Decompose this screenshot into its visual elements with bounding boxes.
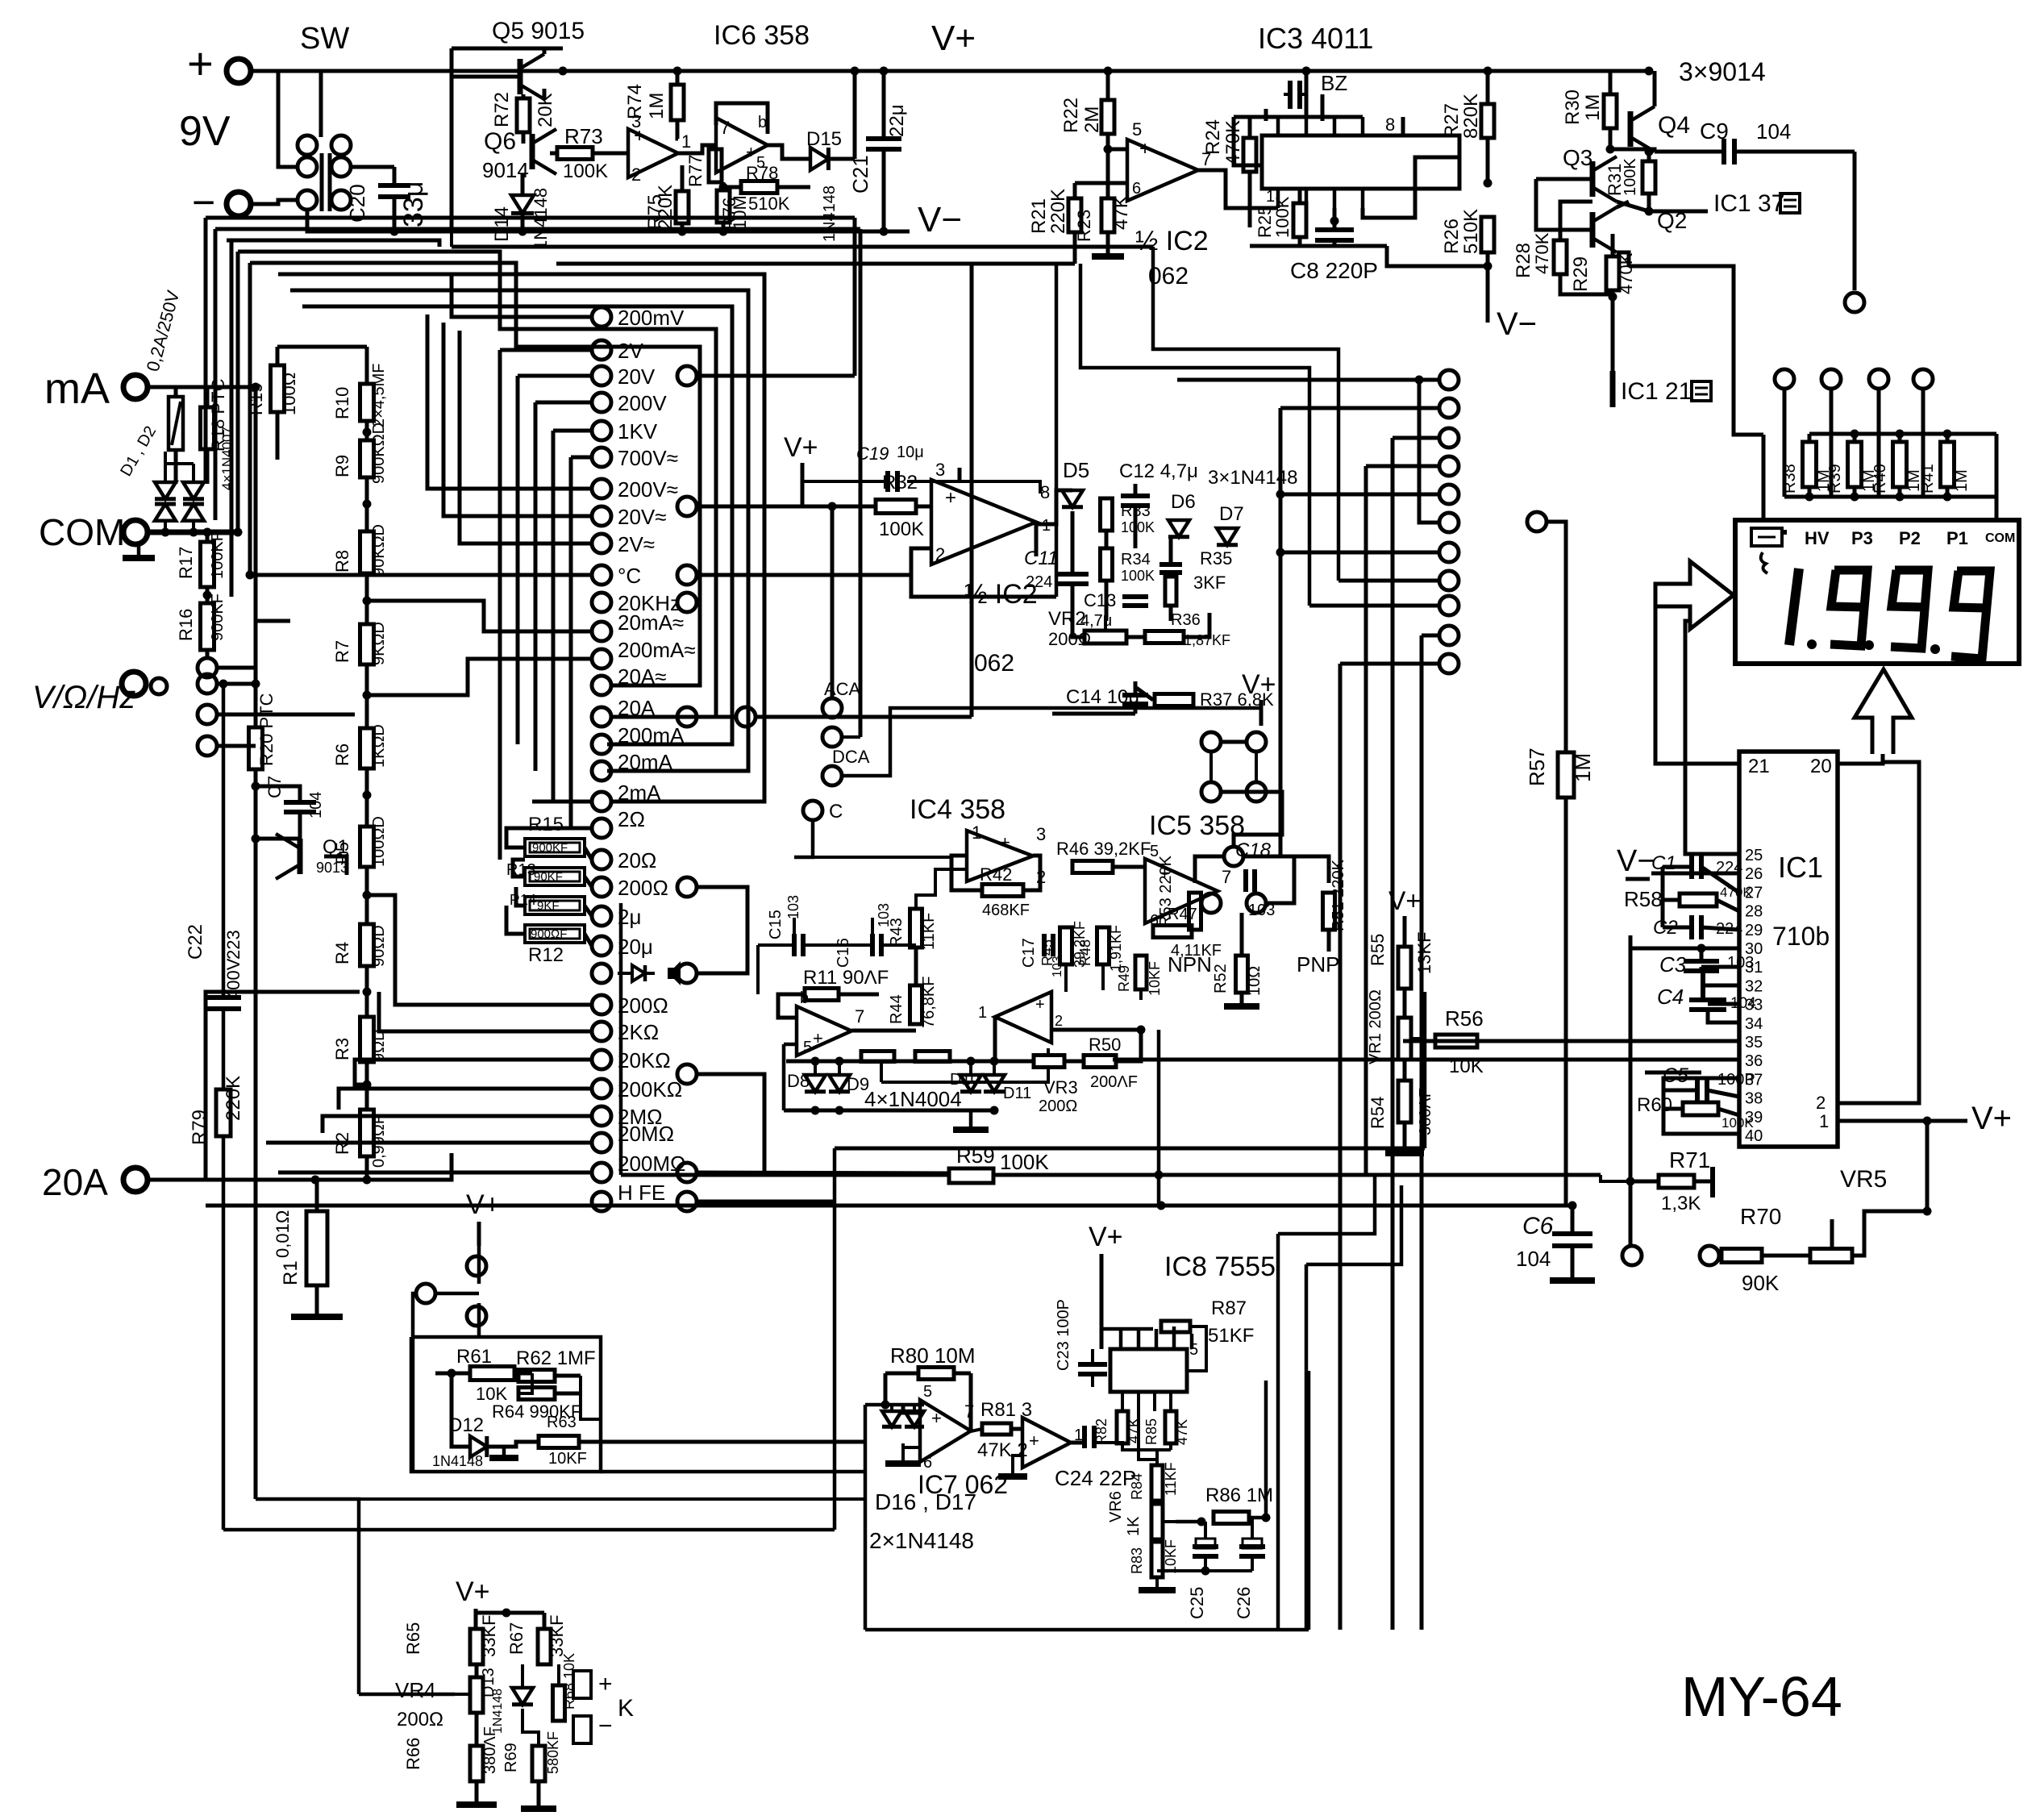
second column contacts xyxy=(677,366,697,385)
resistor R36 xyxy=(1145,631,1184,643)
svg-text:76,8KF: 76,8KF xyxy=(920,977,938,1028)
socket wires xyxy=(1221,740,1247,744)
wire IC6b feedback xyxy=(716,103,768,134)
svg-text:10KF: 10KF xyxy=(1147,961,1163,996)
svg-text:47K: 47K xyxy=(1110,195,1132,230)
wires IC8 bottom xyxy=(1122,1443,1171,1450)
svg-text:IC1 21: IC1 21 xyxy=(1621,378,1692,405)
resistor R54 xyxy=(1398,1081,1411,1122)
bus y1424 xyxy=(835,1147,1425,1151)
IC1 body xyxy=(1739,752,1838,1147)
resistor R84 xyxy=(1151,1465,1163,1501)
svg-text:R71: R71 xyxy=(1669,1147,1710,1172)
wires IC4 xyxy=(851,1029,916,1033)
resistor R51 xyxy=(1323,893,1335,930)
resistor R6 xyxy=(360,728,374,768)
svg-text:20V: 20V xyxy=(618,364,656,389)
contact stub wires xyxy=(452,274,592,317)
svg-text:104: 104 xyxy=(1730,995,1756,1012)
resistor R27 xyxy=(1481,104,1494,138)
svg-text:9KF: 9KF xyxy=(537,899,560,913)
svg-text:b: b xyxy=(800,989,809,1007)
svg-text:R22: R22 xyxy=(1060,98,1082,133)
IC8 top pins xyxy=(1101,1327,1153,1331)
svg-text:R1: R1 xyxy=(280,1260,302,1285)
svg-text:200ΛF: 200ΛF xyxy=(1090,1073,1138,1091)
svg-text:20A: 20A xyxy=(42,1161,108,1203)
svg-text:Q3: Q3 xyxy=(1563,145,1592,170)
svg-text:R87: R87 xyxy=(1211,1297,1247,1319)
svg-text:MY-64: MY-64 xyxy=(1681,1665,1842,1728)
svg-text:20MΩ: 20MΩ xyxy=(618,1122,674,1146)
svg-text:34: 34 xyxy=(1745,1015,1763,1033)
bank bottom bus xyxy=(1784,495,1996,499)
svg-text:R39: R39 xyxy=(1826,464,1844,494)
svg-text:1,91KF: 1,91KF xyxy=(1108,925,1124,972)
display digit 9 second xyxy=(1891,570,1928,648)
svg-text:1: 1 xyxy=(972,823,981,843)
svg-text:103: 103 xyxy=(1051,956,1064,977)
capacitor C21 xyxy=(866,136,901,141)
svg-text:35: 35 xyxy=(1745,1034,1763,1052)
contact below R71 xyxy=(1622,1246,1642,1265)
resistor R5 xyxy=(360,827,374,867)
svg-text:100ΩD: 100ΩD xyxy=(370,816,388,867)
C contact xyxy=(803,801,822,820)
transistor Q5 xyxy=(518,59,523,94)
wire IC2a pin6 xyxy=(1075,181,1127,185)
svg-text:R70: R70 xyxy=(1740,1204,1781,1229)
svg-text:K: K xyxy=(618,1695,634,1722)
bus y1457 xyxy=(621,1173,949,1177)
resistor R45 xyxy=(1060,927,1072,964)
svg-text:90ΩD: 90ΩD xyxy=(370,925,388,967)
ground R23 xyxy=(1092,253,1124,260)
svg-text:5: 5 xyxy=(803,1039,812,1056)
resistor R38 xyxy=(1803,442,1817,487)
svg-text:200KΩ: 200KΩ xyxy=(618,1077,682,1102)
resistor R44 xyxy=(910,985,922,1024)
resistor R30 xyxy=(1604,94,1617,128)
svg-text:IC5 358: IC5 358 xyxy=(1149,810,1245,841)
svg-text:R83: R83 xyxy=(1129,1547,1145,1574)
staircase wires to contacts xyxy=(238,252,716,717)
svg-text:IC4 358: IC4 358 xyxy=(910,794,1005,825)
pin32 stub xyxy=(1703,984,1739,988)
svg-text:Q6: Q6 xyxy=(484,128,516,155)
wire pin25 loop xyxy=(1685,621,1739,854)
selector contacts left input xyxy=(198,674,217,693)
svg-text:700V≈: 700V≈ xyxy=(618,446,678,470)
svg-text:PNP: PNP xyxy=(1297,952,1339,977)
svg-text:R27: R27 xyxy=(1441,103,1463,139)
svg-text:223: 223 xyxy=(223,930,244,960)
svg-text:COM: COM xyxy=(39,511,125,553)
wire - to switch xyxy=(252,200,298,204)
svg-text:C17: C17 xyxy=(1020,938,1038,968)
contact pair V+ xyxy=(467,1256,486,1276)
svg-text:R84: R84 xyxy=(1129,1473,1145,1500)
svg-text:8: 8 xyxy=(1040,482,1050,502)
svg-text:1M: 1M xyxy=(1571,753,1595,782)
svg-text:R29: R29 xyxy=(1570,256,1592,292)
svg-text:10M: 10M xyxy=(730,195,750,230)
display battery icon xyxy=(1751,528,1782,546)
svg-text:R55: R55 xyxy=(1368,934,1388,966)
svg-text:IC6 358: IC6 358 xyxy=(714,20,810,51)
svg-text:V−: V− xyxy=(1497,306,1537,342)
wire + to switch xyxy=(252,69,278,73)
svg-text:+: + xyxy=(945,487,956,509)
svg-text:Q5 9015: Q5 9015 xyxy=(492,18,585,44)
svg-text:C12 4,7μ: C12 4,7μ xyxy=(1119,460,1198,482)
second column wires xyxy=(697,374,855,378)
wire mA chain vertical xyxy=(176,450,194,464)
svg-text:R85: R85 xyxy=(1143,1418,1159,1445)
svg-text:IC1 37: IC1 37 xyxy=(1713,190,1784,217)
svg-text:2: 2 xyxy=(935,544,945,564)
svg-text:−: − xyxy=(598,1713,613,1739)
op-amp IC4b xyxy=(797,1006,851,1056)
bank frame wires xyxy=(1995,434,1999,520)
svg-text:220K: 220K xyxy=(1047,189,1069,234)
svg-text:20μ: 20μ xyxy=(618,935,653,959)
svg-text:SW: SW xyxy=(300,22,349,56)
svg-text:R67: R67 xyxy=(506,1622,527,1655)
svg-text:100P: 100P xyxy=(1717,1071,1755,1089)
svg-text:224: 224 xyxy=(1026,573,1052,591)
svg-text:90KΩD: 90KΩD xyxy=(370,524,388,577)
op-amp IC2a xyxy=(1127,140,1198,201)
svg-text:D7: D7 xyxy=(1219,503,1244,525)
svg-text:R80 10M: R80 10M xyxy=(890,1343,976,1368)
svg-text:220K: 220K xyxy=(655,185,677,230)
IC8 bottom pins xyxy=(1121,1392,1124,1411)
svg-text:R41: R41 xyxy=(1919,464,1937,494)
resistor R55 xyxy=(1398,947,1411,989)
svg-text:DCA: DCA xyxy=(832,747,870,767)
svg-text:°C: °C xyxy=(618,564,641,588)
svg-text:7: 7 xyxy=(964,1401,974,1422)
ground R52 xyxy=(1224,1003,1259,1010)
wire C9 to terminal xyxy=(1853,152,1857,290)
resistor R7 xyxy=(360,624,374,664)
svg-text:103: 103 xyxy=(1727,954,1754,972)
svg-text:1: 1 xyxy=(1819,1111,1829,1131)
svg-text:200Ω: 200Ω xyxy=(618,993,668,1018)
svg-text:400V: 400V xyxy=(223,958,244,1000)
svg-text:R21: R21 xyxy=(1028,198,1050,234)
svg-text:47K 2: 47K 2 xyxy=(977,1439,1028,1461)
svg-text:VR6: VR6 xyxy=(1107,1491,1125,1522)
display terminals xyxy=(1775,369,1794,389)
svg-text:VR5: VR5 xyxy=(1840,1166,1887,1193)
svg-text:R11 90ΛF: R11 90ΛF xyxy=(803,967,889,989)
svg-text:VR4: VR4 xyxy=(395,1678,436,1702)
resistor R75 xyxy=(676,191,689,223)
resistor R22 xyxy=(1101,100,1114,134)
svg-text:D15: D15 xyxy=(806,128,842,150)
svg-text:R12: R12 xyxy=(528,944,564,966)
wire V- rail xyxy=(307,230,910,234)
svg-text:R63: R63 xyxy=(547,1414,577,1431)
svg-text:V+: V+ xyxy=(1971,1101,2012,1136)
feedback R33 xyxy=(911,548,1056,597)
svg-text:1,87KF: 1,87KF xyxy=(1184,632,1230,648)
svg-text:28: 28 xyxy=(1745,903,1763,921)
range contact circles and labels xyxy=(592,307,611,327)
svg-text:3×1N4148: 3×1N4148 xyxy=(1208,467,1297,489)
svg-text:100K: 100K xyxy=(1121,519,1155,535)
svg-text:8: 8 xyxy=(1385,115,1395,135)
svg-text:½ IC2: ½ IC2 xyxy=(1135,226,1209,256)
svg-text:7: 7 xyxy=(855,1006,864,1027)
svg-text:R9: R9 xyxy=(332,455,352,477)
svg-text:200Ω: 200Ω xyxy=(618,876,668,900)
svg-text:33KF: 33KF xyxy=(547,1614,567,1657)
IC3 4011 body xyxy=(1262,135,1459,189)
svg-text:10μ: 10μ xyxy=(897,444,924,461)
resistor R12 xyxy=(525,925,585,943)
svg-text:100K: 100K xyxy=(879,519,924,540)
range interconnect verticals xyxy=(498,350,502,860)
display digit 9 first xyxy=(1830,570,1867,646)
svg-text:510K: 510K xyxy=(748,194,790,214)
svg-text:104: 104 xyxy=(1756,119,1791,144)
wire Q6 emitter to D14 xyxy=(521,174,525,194)
svg-text:200V≈: 200V≈ xyxy=(618,477,678,502)
svg-text:VR3: VR3 xyxy=(1043,1077,1078,1097)
svg-text:R10: R10 xyxy=(332,387,352,419)
svg-text:2M: 2M xyxy=(1081,106,1103,133)
svg-text:5: 5 xyxy=(1189,1341,1198,1359)
svg-text:R82: R82 xyxy=(1093,1418,1110,1445)
wire mesh middle verticals xyxy=(853,218,857,376)
svg-text:100KF: 100KF xyxy=(209,531,227,579)
svg-text:33KF: 33KF xyxy=(479,1614,499,1657)
svg-text:25: 25 xyxy=(1745,847,1763,864)
svg-text:90KF: 90KF xyxy=(534,870,563,884)
resistor R37 xyxy=(1155,694,1193,706)
IC8 body xyxy=(1110,1349,1187,1392)
svg-text:+: + xyxy=(1139,138,1151,160)
resistor R17 xyxy=(201,542,214,587)
svg-text:V+: V+ xyxy=(1089,1222,1123,1252)
svg-text:4,7μ: 4,7μ xyxy=(1080,612,1112,630)
op-amp IC7b xyxy=(1022,1418,1071,1468)
wire IC1 left down xyxy=(1629,935,1633,1246)
svg-text:Q4: Q4 xyxy=(1658,112,1690,139)
svg-text:100Ω: 100Ω xyxy=(279,373,299,415)
display digit 9 third xyxy=(1951,571,1990,659)
svg-text:380ΛF: 380ΛF xyxy=(481,1726,499,1774)
wire R21 bottom bus xyxy=(1056,262,1075,266)
resistor R83 xyxy=(1151,1542,1163,1577)
svg-text:R40: R40 xyxy=(1871,464,1889,494)
svg-text:C23 100P: C23 100P xyxy=(1055,1299,1072,1371)
ground R83 xyxy=(1139,1587,1176,1593)
svg-text:3: 3 xyxy=(1036,824,1046,844)
resistor R41 xyxy=(1941,442,1955,487)
transistor Q3 xyxy=(1590,161,1596,197)
diode test symbol xyxy=(618,972,632,975)
svg-text:10Ω: 10Ω xyxy=(1246,966,1264,996)
resistor R39 xyxy=(1848,442,1862,487)
wire C3 left loop xyxy=(1630,935,1701,948)
svg-text:R56: R56 xyxy=(1445,1006,1484,1031)
svg-text:R17: R17 xyxy=(176,547,196,579)
svg-text:C13: C13 xyxy=(1084,590,1116,610)
svg-text:6: 6 xyxy=(923,1454,932,1472)
pot VR3 xyxy=(1034,1056,1064,1068)
svg-text:H FE: H FE xyxy=(618,1181,665,1205)
wire R51 down xyxy=(1266,856,1294,903)
op-amp IC2b xyxy=(931,480,1036,564)
ground R69 xyxy=(521,1805,556,1812)
resistor R49 xyxy=(1135,956,1147,989)
svg-text:R62 1MF: R62 1MF xyxy=(516,1347,596,1369)
wires IC5 xyxy=(993,1017,997,1061)
op-amp IC5a xyxy=(1145,859,1218,923)
wire to C21 xyxy=(853,71,857,159)
wire Q1 to ladder xyxy=(324,856,347,875)
resistor R69 xyxy=(532,1746,545,1781)
ground R54 xyxy=(1385,1150,1424,1156)
wire IC3 right loop xyxy=(1363,157,1459,218)
svg-text:468KF: 468KF xyxy=(982,902,1030,919)
svg-text:104: 104 xyxy=(1516,1247,1551,1271)
staircase wires right of IC8 xyxy=(1277,1206,1279,1234)
svg-text:4×1N4004: 4×1N4004 xyxy=(864,1087,962,1111)
svg-text:1KV: 1KV xyxy=(618,419,658,444)
display body xyxy=(1735,520,2019,664)
svg-text:470K: 470K xyxy=(1532,232,1552,274)
svg-text:IC1: IC1 xyxy=(1778,851,1823,884)
wire pin40 loop xyxy=(1663,1109,1739,1134)
ACA riser wire xyxy=(831,506,835,698)
wire mesh top horizontals xyxy=(206,216,855,220)
svg-text:ACA: ACA xyxy=(824,679,861,699)
resistor R34 xyxy=(1101,548,1113,581)
svg-text:7: 7 xyxy=(1222,867,1231,887)
svg-text:1M: 1M xyxy=(646,93,668,119)
svg-text:R4: R4 xyxy=(332,942,352,964)
svg-text:38: 38 xyxy=(1745,1090,1763,1108)
wire pin26 xyxy=(1651,872,1739,876)
resistor R65 xyxy=(470,1629,483,1664)
svg-text:3KF: 3KF xyxy=(1193,573,1226,593)
resistor R52 xyxy=(1236,956,1248,993)
svg-text:R15: R15 xyxy=(528,814,564,835)
resistor R79 xyxy=(216,1089,231,1136)
transistor Q2 xyxy=(1590,212,1596,248)
resistor R3 xyxy=(360,1017,374,1062)
svg-text:D6: D6 xyxy=(1171,491,1196,513)
resistor R15 xyxy=(525,839,585,856)
svg-text:10K: 10K xyxy=(1449,1056,1484,1077)
svg-text:100K: 100K xyxy=(1272,196,1293,238)
connector + K - xyxy=(573,1671,591,1698)
svg-text:29: 29 xyxy=(1745,922,1763,939)
wire switch to C20 xyxy=(351,165,394,169)
resistor R48 xyxy=(1097,927,1110,964)
op-amp IC7a xyxy=(920,1400,971,1462)
right selector contacts xyxy=(1439,370,1459,389)
svg-text:R35: R35 xyxy=(1200,548,1232,568)
svg-text:C21: C21 xyxy=(848,155,872,194)
svg-text:10KF: 10KF xyxy=(548,1450,587,1468)
svg-text:900KF: 900KF xyxy=(209,593,227,641)
wire 20A up xyxy=(206,992,360,1180)
resistor R77 xyxy=(709,149,722,182)
svg-text:R23: R23 xyxy=(1074,210,1094,242)
svg-text:P1: P1 xyxy=(1946,528,1968,548)
resistor R53 xyxy=(1189,893,1201,930)
svg-text:200mV: 200mV xyxy=(618,306,685,330)
svg-text:+: + xyxy=(746,142,756,162)
svg-text:P2: P2 xyxy=(1899,528,1921,548)
svg-text:2KΩ: 2KΩ xyxy=(618,1020,659,1044)
svg-text:R42: R42 xyxy=(980,864,1012,885)
svg-text:NPN: NPN xyxy=(1168,952,1212,977)
IC3 top pins xyxy=(1276,117,1280,135)
svg-text:220K: 220K xyxy=(223,1076,244,1121)
svg-text:100K: 100K xyxy=(1121,568,1155,584)
resistor R85 xyxy=(1165,1411,1176,1443)
svg-text:20Ω: 20Ω xyxy=(618,848,656,873)
svg-text:R49: R49 xyxy=(1116,965,1132,992)
svg-text:26: 26 xyxy=(1745,865,1763,883)
svg-text:580KF: 580KF xyxy=(545,1731,561,1774)
svg-text:D16 , D17: D16 , D17 xyxy=(875,1489,976,1514)
svg-text:200V: 200V xyxy=(618,391,667,415)
wire left long to IC7 xyxy=(223,1528,835,1532)
svg-text:2V≈: 2V≈ xyxy=(618,532,655,556)
svg-text:11KF: 11KF xyxy=(920,913,938,950)
wire opamp out to IC3 xyxy=(1198,170,1278,208)
svg-text:11KF: 11KF xyxy=(1163,1462,1179,1496)
ground R66 xyxy=(456,1801,497,1808)
svg-text:R43: R43 xyxy=(888,918,906,947)
diode bus bottom xyxy=(784,1109,994,1113)
op-amp IC5b xyxy=(995,992,1051,1043)
wire R86 right xyxy=(1264,1381,1268,1518)
svg-text:9ΩD: 9ΩD xyxy=(370,1029,388,1062)
resistor R31 xyxy=(1642,161,1655,194)
svg-text:1KΩD: 1KΩD xyxy=(370,724,388,768)
svg-text:9V: 9V xyxy=(179,108,231,155)
middle vertical bundle xyxy=(1055,264,1059,597)
svg-text:R7: R7 xyxy=(332,640,352,663)
wire into D16 xyxy=(865,1403,882,1407)
svg-text:900ΩF: 900ΩF xyxy=(531,927,567,941)
ground COM xyxy=(137,545,141,558)
svg-text:7: 7 xyxy=(720,118,730,138)
wire C25 C26 gnd xyxy=(1157,1569,1252,1572)
small resistor above diodes 2 xyxy=(915,1052,950,1062)
svg-text:470K: 470K xyxy=(1616,252,1636,294)
svg-text:R24: R24 xyxy=(1202,119,1224,155)
svg-text:+: + xyxy=(813,1028,823,1048)
svg-text:0,01Ω: 0,01Ω xyxy=(273,1210,293,1258)
svg-text:+: + xyxy=(931,1408,942,1428)
svg-text:C19: C19 xyxy=(856,444,889,464)
svg-text:1N4148: 1N4148 xyxy=(821,185,839,242)
svg-text:100K: 100K xyxy=(1722,1115,1754,1131)
svg-text:R48: R48 xyxy=(1077,939,1093,966)
svg-text:Q2: Q2 xyxy=(1657,208,1687,233)
resistor R29 xyxy=(1606,256,1619,290)
